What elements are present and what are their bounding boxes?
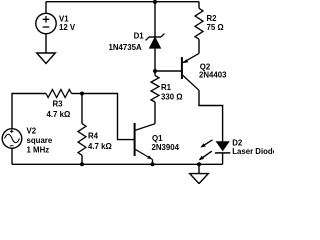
resistor R4 xyxy=(78,124,86,156)
label V1 value xyxy=(59,14,76,32)
wire R1 top lead xyxy=(154,71,156,76)
svg-text:12 V: 12 V xyxy=(59,23,76,32)
label V2 value xyxy=(27,126,53,154)
transistor Q2 (PNP 2N4403) xyxy=(182,53,199,90)
wire V1 top riser xyxy=(45,2,47,14)
wire R4 top lead xyxy=(81,94,83,124)
svg-text:Laser Diode: Laser Diode xyxy=(232,147,274,156)
label R4 value xyxy=(88,131,112,151)
node junction top rail / D1 xyxy=(153,0,157,4)
svg-text:1N4735A: 1N4735A xyxy=(109,43,142,52)
wire R3 right lead xyxy=(72,93,83,95)
svg-text:D1: D1 xyxy=(134,32,145,41)
wire bottom rail xyxy=(12,163,223,165)
label D2 value xyxy=(232,138,278,156)
ground bottom xyxy=(190,164,209,183)
resistor R3 xyxy=(46,90,72,98)
label R3 value xyxy=(47,100,71,120)
wire D1 anode down to node xyxy=(154,48,156,71)
wire V1 bottom to ground xyxy=(45,34,47,53)
svg-text:Q1: Q1 xyxy=(152,134,163,143)
svg-text:R2: R2 xyxy=(207,14,218,23)
wire R2 bottom lead to Q2 emitter xyxy=(198,39,200,53)
label Q1 value xyxy=(152,134,180,152)
wire Q2 base xyxy=(155,70,182,72)
svg-text:4.7 kΩ: 4.7 kΩ xyxy=(47,110,71,119)
svg-text:330 Ω: 330 Ω xyxy=(161,93,183,102)
node junction R3/R4 xyxy=(80,92,84,96)
svg-text:4.7 kΩ: 4.7 kΩ xyxy=(88,142,112,151)
resistor R1 xyxy=(151,76,159,103)
wire Q1 base path from R3/R4 node xyxy=(82,94,135,140)
svg-text:V2: V2 xyxy=(27,126,37,135)
wire Q2 collector path to D2 xyxy=(199,90,223,141)
svg-text:2N4403: 2N4403 xyxy=(199,71,227,80)
node junction D1/R1/Q2 base xyxy=(153,69,157,73)
label Q2 value xyxy=(199,63,227,80)
wire Q1 collector diagonal xyxy=(135,124,155,131)
svg-text:1 MHz: 1 MHz xyxy=(27,145,50,154)
svg-text:R3: R3 xyxy=(53,100,64,109)
wire R2 top lead xyxy=(198,2,200,9)
node junction ground xyxy=(197,162,201,166)
wire R4 bottom lead xyxy=(81,155,83,164)
laser diode D2 xyxy=(215,142,230,165)
svg-text:R1: R1 xyxy=(161,83,172,92)
transistor Q1 (NPN 2N3904) xyxy=(135,123,153,164)
zener diode D1 xyxy=(146,34,165,49)
node junction R4 bottom xyxy=(80,162,84,166)
wire top rail V1 to R2 xyxy=(46,1,199,3)
label D1 value xyxy=(109,32,145,52)
voltage source V2 xyxy=(2,129,22,149)
wire V2 bottom lead xyxy=(11,148,13,164)
wire R1 bottom lead xyxy=(154,102,156,124)
svg-text:R4: R4 xyxy=(88,131,99,140)
wire V2 top path to R3 xyxy=(12,94,46,129)
wire D1 top lead xyxy=(154,2,156,37)
label R1 value xyxy=(161,83,183,102)
node junction Q1 emitter xyxy=(151,162,155,166)
resistor R2 xyxy=(195,8,203,39)
svg-text:square: square xyxy=(27,136,53,145)
svg-text:75 Ω: 75 Ω xyxy=(207,23,224,32)
voltage source V1 xyxy=(36,13,56,33)
ground under V1 xyxy=(37,53,56,64)
D2 emission arrow 1 xyxy=(200,140,212,148)
label R2 value xyxy=(207,14,224,32)
svg-text:2N3904: 2N3904 xyxy=(152,143,180,152)
svg-text:D2: D2 xyxy=(232,138,243,147)
D2 emission arrow 2 xyxy=(199,151,212,160)
